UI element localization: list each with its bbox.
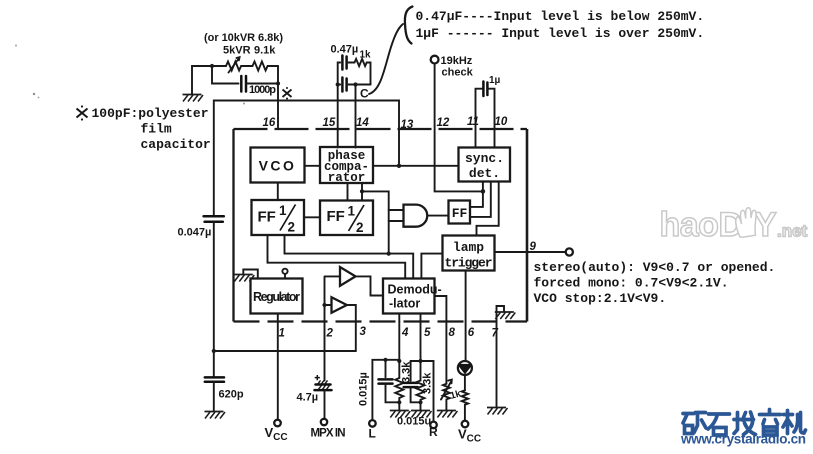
wire phase comp to FF2 (left)	[347, 183, 349, 201]
block Demodulator	[383, 279, 442, 314]
note: pin9 mode voltages (right)	[534, 260, 776, 306]
svg-text:9.1k: 9.1k	[254, 45, 276, 57]
wire FF1 to demodulator (B)	[285, 235, 414, 279]
note: capacitor selection text top-right	[405, 7, 704, 44]
svg-text:VCO stop:2.1V<V9.: VCO stop:2.1V<V9.	[534, 291, 667, 306]
svg-text:(or 10kVR 6.8k): (or 10kVR 6.8k)	[204, 32, 283, 44]
node pin13 junction	[397, 164, 401, 168]
ground (left rail)	[205, 412, 226, 419]
svg-text:0.047µ: 0.047µ	[178, 227, 212, 239]
char kuang	[683, 413, 706, 434]
svg-text:13: 13	[401, 119, 414, 131]
wire L terminal riser	[372, 360, 399, 420]
wire lamp trigger to pin6	[465, 271, 467, 362]
wire pin5 to ground	[420, 402, 422, 410]
svg-text:1000p: 1000p	[249, 84, 276, 96]
svg-text:100pF:polyester: 100pF:polyester	[92, 106, 209, 121]
svg-text:9: 9	[530, 241, 537, 253]
svg-text:www.crystalradio.cn: www.crystalradio.cn	[680, 432, 806, 447]
wire pin14 riser	[355, 85, 357, 148]
node pin4 top	[397, 359, 401, 363]
ground (pin8)	[437, 411, 458, 418]
AND gate	[404, 205, 428, 227]
svg-text:0.47µF----Input level is below: 0.47µF----Input level is below 250mV.	[416, 9, 705, 24]
wire pin16 riser	[277, 66, 279, 129]
block sync det	[459, 148, 511, 182]
wire 620p to ground	[213, 382, 215, 411]
capacitor 1000p	[241, 76, 276, 96]
wire VCO to FF1	[277, 183, 279, 201]
block FF (small)	[449, 201, 471, 224]
node AND riser junction	[387, 252, 391, 256]
variable resistor 1k (pin8)	[441, 380, 463, 410]
wire lamp trigger to pin9	[495, 251, 566, 253]
svg-text:12: 12	[437, 117, 450, 129]
svg-text:5kVR: 5kVR	[223, 45, 251, 57]
capacitor 0.047u	[178, 216, 224, 238]
wire regulator to pin1 / VCC	[277, 314, 279, 420]
wire demodulator to pin4	[398, 314, 400, 322]
pin7 internal ground	[495, 306, 516, 322]
wire A2 output to pin3	[347, 305, 356, 351]
wire pin5 down	[420, 322, 422, 381]
svg-text:Regulator: Regulator	[253, 290, 300, 304]
node pin5 bottom	[418, 400, 422, 404]
node (top-left junction)	[210, 64, 214, 68]
node amp input	[322, 303, 326, 307]
wire lower branch to capacitor	[212, 66, 239, 84]
note: 100pF polyester film capacitor (left)	[77, 105, 211, 152]
svg-text:4: 4	[401, 327, 409, 339]
svg-text:FF: FF	[452, 206, 468, 221]
watermark haoDIY.net	[660, 206, 808, 244]
capacitor 0.015u (R)	[404, 361, 421, 402]
terminal 19kHz check	[431, 55, 474, 79]
svg-text:check: check	[442, 67, 474, 79]
wire sync det to lamp trigger	[477, 182, 499, 236]
wire MPX input riser pin2	[325, 276, 341, 380]
wire AND output to FF	[429, 215, 449, 217]
svg-text:FF: FF	[327, 208, 345, 225]
svg-text:1: 1	[279, 328, 285, 340]
svg-text:-lator: -lator	[389, 297, 420, 311]
ground (pin4)	[390, 411, 411, 418]
block FF 1/2 (first)	[252, 200, 305, 235]
svg-text:620p: 620p	[219, 389, 244, 401]
node phase comp branch	[360, 189, 364, 193]
wire pin3 to left rail	[214, 350, 356, 352]
resistor 3.3k (pin4)	[395, 361, 412, 403]
svg-text:4.7µ: 4.7µ	[297, 392, 319, 404]
wire pin4 down	[398, 322, 400, 379]
svg-text:capacitor: capacitor	[141, 137, 211, 152]
wire A1 output to demodulator	[356, 276, 384, 295]
svg-text:L: L	[369, 427, 376, 441]
svg-text:19kHz: 19kHz	[441, 55, 473, 67]
wire phase comp to FF2 (right)	[361, 183, 363, 201]
regulator internal ground	[234, 270, 258, 282]
wire pin7 to ground	[496, 322, 498, 408]
svg-text:2: 2	[288, 220, 296, 235]
svg-text:haoD: haoD	[660, 206, 743, 244]
svg-text:VCO: VCO	[259, 158, 297, 174]
wire to amplifier A2	[325, 304, 332, 306]
svg-text:7: 7	[492, 328, 499, 340]
wire demodulator to pin8	[435, 296, 447, 384]
wire FF1 to demodulator (A)	[268, 235, 406, 279]
block Regulator	[251, 279, 303, 314]
svg-text:film: film	[141, 122, 172, 137]
svg-text:MPX IN: MPX IN	[311, 428, 346, 440]
wire 4.7u to MPX terminal	[324, 390, 326, 419]
resistor (LED series)	[462, 390, 468, 421]
amplifier A2	[332, 297, 347, 313]
svg-text:0.015u: 0.015u	[397, 416, 431, 428]
svg-text:lamp: lamp	[453, 240, 484, 255]
node L branch	[383, 358, 387, 362]
svg-text:11: 11	[467, 116, 479, 128]
variable resistor 5kVR	[226, 57, 243, 72]
ground (pin5)	[411, 411, 432, 418]
svg-text:1: 1	[279, 203, 287, 218]
svg-text:trigger: trigger	[445, 256, 493, 271]
svg-text:forced mono: 0.7<V9<2.1V.: forced mono: 0.7<V9<2.1V.	[534, 276, 729, 291]
LED stereo lamp	[458, 361, 472, 375]
svg-text:1µ: 1µ	[489, 75, 501, 86]
wire cap to right node	[246, 83, 278, 85]
resistor 9.1k	[253, 62, 279, 71]
node pin12 junction	[481, 189, 486, 194]
svg-text:8: 8	[449, 327, 456, 339]
node pin4 bottom	[397, 400, 401, 404]
capacitor 1u (pin11-pin10 bridge)	[476, 75, 501, 148]
wire FF1 to FF2	[304, 216, 320, 218]
char yin	[760, 410, 781, 436]
wire pin15 riser	[337, 85, 339, 148]
block VCO	[251, 148, 305, 183]
svg-text:sync.: sync.	[465, 151, 504, 166]
svg-text:3.3k: 3.3k	[422, 372, 434, 394]
reference mark small	[283, 87, 292, 100]
terminal pin9	[566, 248, 573, 255]
svg-text:Demodu-: Demodu-	[388, 283, 442, 297]
node	[276, 81, 280, 85]
svg-text:rator: rator	[328, 171, 366, 185]
char ji	[783, 411, 806, 434]
terminal L	[369, 420, 376, 427]
terminal MPX IN	[321, 419, 327, 425]
svg-text:2: 2	[356, 220, 364, 235]
wire	[243, 65, 253, 67]
node pin15	[336, 82, 340, 86]
svg-text:16: 16	[263, 117, 276, 129]
wire demodulator to pin5	[420, 314, 422, 322]
node C	[353, 82, 357, 86]
wire sync det to FF (upper)	[470, 182, 483, 207]
wire R terminal riser	[411, 361, 434, 422]
resistor 3.3k (pin5)	[417, 372, 434, 403]
capacitor 0.47u with resistor 1k (pin15 network)	[331, 44, 372, 85]
block lamp trigger	[443, 236, 495, 271]
wire left rail lower	[213, 222, 215, 377]
char shi	[708, 414, 730, 435]
terminal VCC (pin6)	[462, 421, 469, 428]
IC chip outline	[234, 129, 528, 322]
svg-text:Y: Y	[754, 206, 777, 244]
wire pin12 from 19kHz check	[435, 64, 481, 192]
wire lamp trigger to demodulator	[421, 254, 442, 279]
svg-text:10: 10	[495, 116, 508, 128]
svg-text:15: 15	[323, 117, 336, 129]
terminal R	[430, 422, 437, 429]
svg-text:0.47µ: 0.47µ	[331, 44, 359, 56]
block FF 1/2 (second)	[320, 201, 373, 236]
svg-text:det.: det.	[469, 166, 500, 181]
wire VCO to phase comparator	[305, 165, 321, 167]
svg-text:3: 3	[360, 326, 367, 338]
block phase comparator	[320, 147, 373, 185]
svg-text:14: 14	[356, 117, 369, 129]
node (left rail / pin3 wire)	[212, 349, 216, 353]
wire sync det to FF (lower)	[470, 182, 491, 217]
svg-text:0.015µ: 0.015µ	[358, 372, 370, 406]
terminal VCC (pin1)	[274, 420, 281, 427]
wire left rail top to pin13	[214, 101, 399, 217]
watermark crystalradio blue	[683, 410, 806, 436]
capacitor 4.7u polarized	[297, 375, 332, 404]
node pin5 top	[418, 359, 422, 363]
svg-text:.net: .net	[777, 222, 808, 241]
svg-text:5: 5	[424, 327, 431, 339]
capacitor 0.47u lower (pin15-pin14)	[338, 78, 371, 92]
ground (pin7)	[487, 408, 508, 415]
ground (VR network)	[183, 95, 204, 102]
wire ground to node	[192, 66, 226, 95]
svg-text:FF: FF	[258, 209, 276, 226]
capacitor 0.015u (L)	[379, 360, 400, 403]
capacitor 620p	[205, 377, 244, 400]
svg-text:1: 1	[348, 204, 356, 219]
wire branch to AND inputs	[362, 191, 389, 253]
svg-text:6: 6	[468, 327, 475, 339]
leader curve from node C to note	[369, 24, 403, 94]
svg-text:stereo(auto): V9<0.7 or opened: stereo(auto): V9<0.7 or opened.	[534, 260, 776, 275]
wire phase comparator to sync det	[373, 165, 459, 167]
svg-text:C: C	[360, 87, 369, 101]
amplifier A1	[340, 267, 356, 286]
wire pin4 to ground	[398, 402, 400, 410]
svg-text:2: 2	[326, 328, 334, 340]
svg-text:1µF ------ Input level is over: 1µF ------ Input level is over 250mV.	[416, 26, 705, 41]
terminal regulator top	[282, 269, 287, 279]
char shou	[734, 412, 756, 435]
wire LED to resistor	[464, 375, 466, 390]
